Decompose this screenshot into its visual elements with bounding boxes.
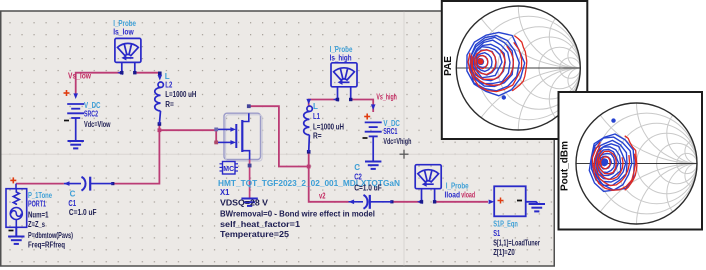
Pout optimum point red (599, 160, 603, 164)
probe Is_low legs (122, 62, 135, 72)
capacitor C2 (349, 195, 392, 209)
pin arrow L2 top (158, 75, 163, 81)
svg-text:Num=1: Num=1 (28, 210, 49, 219)
svg-text:R=: R= (165, 100, 174, 109)
pin arrow S1 input (489, 200, 495, 205)
svg-text:L=1000 uH: L=1000 uH (313, 122, 344, 131)
wire: Is_low to L2 (135, 72, 160, 74)
schematic canvas (1, 11, 555, 266)
wire: X1 drain to drain node (249, 106, 309, 166)
svg-text:self_heat_factor=1: self_heat_factor=1 (220, 220, 301, 229)
svg-text:Pout_dBm: Pout_dBm (560, 141, 571, 191)
PAE optimum point (478, 59, 484, 65)
ground (SRC1) (365, 162, 381, 169)
svg-text:PAE: PAE (443, 56, 454, 76)
junction: drain node (307, 165, 311, 169)
svg-text:S1P_Eqn: S1P_Eqn (493, 220, 518, 229)
port PORT1 plus polarity (10, 177, 16, 183)
svg-text:Vdc=Vhigh: Vdc=Vhigh (383, 137, 411, 146)
wire: PORT1 to C1 (16, 183, 64, 185)
S1 plus symbol (498, 198, 504, 204)
pin arrow Is_high pin 1 (333, 97, 339, 102)
probe Iload meter (415, 165, 441, 189)
svg-text:BWremoval=0 - Bond wire effect: BWremoval=0 - Bond wire effect in model (220, 210, 375, 219)
Pout smith grid (576, 0, 706, 270)
wire: Is_high to SRC1 (351, 100, 374, 113)
svg-text:Temperature=25: Temperature=25 (220, 230, 290, 239)
PAE axis line (456, 67, 580, 69)
wire SRC2 bottom lead (75, 118, 77, 141)
PAE contours blue (478, 59, 484, 65)
pin arrow C2 pin 1 (349, 200, 355, 205)
svg-text:Vs_high: Vs_high (376, 92, 397, 101)
PAE marker dot (502, 95, 506, 99)
ground (S1) (526, 201, 537, 203)
capacitor C1 (64, 177, 113, 191)
ground (PORT1) (8, 227, 24, 244)
PAE smith chart panel (442, 1, 588, 139)
dc source SRC2 battery (67, 104, 84, 118)
pin dots Is_high (336, 98, 339, 101)
PAE outer circle (456, 6, 580, 130)
transistor X1 box (224, 113, 261, 159)
probe Is_low meter (115, 38, 141, 62)
model card glyph (MC) (223, 162, 236, 175)
svg-text:Is_low: Is_low (113, 28, 134, 37)
pin dots Is_low (120, 71, 123, 74)
svg-text:Iload: Iload (445, 191, 461, 200)
wire: C1 to gate node (113, 130, 160, 183)
svg-text:C: C (354, 163, 360, 172)
major grid line horizontal (2, 153, 554, 155)
junction: L2 top pin (158, 72, 162, 76)
svg-text:Vdc=Vlow: Vdc=Vlow (84, 120, 111, 129)
pin dots Iload (420, 200, 423, 203)
svg-text:C2: C2 (354, 172, 362, 181)
PAE contours red (476, 56, 488, 69)
pin arrow SRC2 plus pin (73, 93, 78, 99)
pin dot X1 gate pin2 (214, 141, 218, 145)
probe Iload legs (422, 189, 435, 202)
svg-text:S1: S1 (493, 229, 500, 238)
s-parameter block S1 box (494, 186, 526, 216)
Pout outer circle (576, 103, 697, 224)
junction: C2 pin 2 (390, 200, 393, 203)
port PORT1 P_1Tone symbol (6, 184, 27, 228)
svg-text:C=1.0 uF: C=1.0 uF (69, 208, 97, 217)
svg-text:R=: R= (313, 132, 322, 141)
pin arrow Iload pin 1 (417, 200, 423, 205)
svg-text:v2: v2 (319, 191, 326, 200)
svg-text:vload: vload (461, 191, 475, 200)
svg-text:VDSQ=28 V: VDSQ=28 V (220, 199, 269, 208)
major grid line vertical (403, 12, 405, 266)
wire: gate node to X1 gate pins (159, 129, 216, 142)
pin arrow X1 gate pin 2 (230, 140, 236, 145)
svg-text:I_Probe: I_Probe (446, 182, 469, 191)
SRC1 minus polarity (363, 137, 368, 139)
PAE smith grid (456, 0, 704, 270)
probe Is_high meter (331, 63, 357, 87)
wire: SRC2 to Is_low (76, 73, 122, 96)
svg-text:C=1.0 uF: C=1.0 uF (354, 184, 382, 193)
junction: C1 pin 2 (111, 182, 114, 185)
svg-text:SRC2: SRC2 (84, 110, 98, 119)
svg-text:SRC1: SRC1 (383, 127, 397, 136)
svg-text:Z[1]=Z0: Z[1]=Z0 (493, 248, 515, 257)
svg-text:PORT1: PORT1 (28, 200, 46, 209)
svg-text:MC: MC (223, 166, 234, 173)
svg-text:Vs_low: Vs_low (68, 71, 92, 80)
svg-text:Z=Z_s: Z=Z_s (28, 220, 45, 229)
svg-text:C1: C1 (68, 199, 76, 208)
dc source SRC1 battery (365, 122, 382, 136)
ground (SRC2) (68, 141, 84, 148)
svg-text:L1: L1 (313, 112, 320, 121)
S1 minus symbol (517, 200, 522, 202)
junction: gate node (158, 128, 162, 132)
wire: Iload to S1P (435, 201, 488, 203)
inductor L2 (155, 82, 164, 111)
grid cross marker (400, 150, 409, 159)
svg-text:L=1000 uH: L=1000 uH (165, 90, 196, 99)
ground (X1 source) (241, 199, 257, 206)
pin arrow Is_low pin 1 (117, 70, 123, 75)
junction: L1 bottom pin (307, 150, 311, 154)
Pout contours red (601, 157, 610, 169)
Pout marker dot (611, 118, 615, 122)
Pout contours blue (601, 159, 608, 166)
Pout_dBm smith chart panel (559, 92, 703, 230)
svg-text:Is_high: Is_high (330, 53, 352, 62)
wire: drain node to C2 (309, 167, 349, 202)
SRC2 plus polarity (64, 90, 70, 96)
svg-text:L: L (313, 102, 318, 111)
Pout axis line (576, 163, 697, 165)
junction: X1 drain pin (247, 104, 251, 108)
inductor L1 (304, 106, 313, 135)
Pout optimum point blue (601, 159, 608, 166)
pin dot X1 gate pin1 (214, 128, 218, 132)
SRC2 minus polarity (64, 120, 69, 122)
svg-text:S[1,1]=LoadTuner: S[1,1]=LoadTuner (493, 239, 540, 248)
wire: L1 top to Is_high (309, 100, 338, 108)
pin arrow SRC1 plus pin (371, 104, 376, 110)
port PORT1 minus polarity (9, 230, 14, 232)
junction: L2 bottom pin (158, 122, 162, 126)
wire: L1 bottom to drain node (308, 152, 310, 167)
transistor X1 FET symbol (218, 113, 250, 159)
SRC1 plus polarity (364, 114, 370, 120)
svg-text:L2: L2 (165, 80, 172, 89)
junction: X1 source pin (248, 164, 252, 168)
wire: L2 to gate node (158, 124, 160, 130)
X1 source lead (249, 160, 251, 199)
wire SRC1 bottom lead (372, 137, 374, 162)
wire: C2 to Iload (392, 201, 422, 203)
svg-text:X1: X1 (220, 188, 230, 197)
svg-text:Freq=RFfreq: Freq=RFfreq (28, 240, 65, 249)
pin arrow C1 pin 1 (64, 181, 70, 186)
svg-text:C: C (70, 189, 76, 198)
probe Is_high legs (338, 87, 351, 100)
pin arrow L1 top (306, 99, 311, 105)
pin arrow X1 gate pin 1 (230, 127, 236, 132)
svg-text:P=dbmtow(Pavs): P=dbmtow(Pavs) (28, 231, 73, 240)
